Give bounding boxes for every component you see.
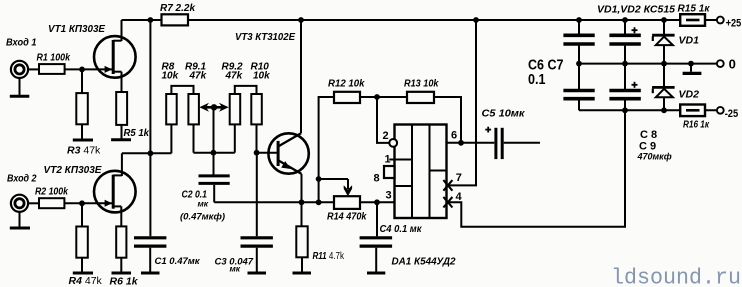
wire C4 bottom leg	[375, 248, 377, 273]
svg-text:R14 470k: R14 470k	[327, 212, 367, 223]
junction on top rail at VT3 collector	[298, 17, 304, 23]
wire VT1 drain riser	[121, 20, 123, 41]
svg-text:10k: 10k	[253, 70, 270, 81]
wire VT3 emitter riser	[301, 174, 303, 202]
svg-text:R2 100k: R2 100k	[35, 186, 69, 198]
svg-text:4: 4	[456, 191, 463, 203]
svg-text:DA1 К544УД2: DA1 К544УД2	[392, 256, 456, 268]
C9 plus sign	[632, 82, 638, 88]
junction wiper link center	[211, 104, 217, 110]
op-amp DA1 box	[389, 125, 446, 219]
junction wiper node / C2	[211, 150, 217, 156]
svg-text:VD1,VD2 КС515: VD1,VD2 КС515	[597, 5, 675, 16]
wire C2 bottom drop	[213, 185, 215, 202]
wire bottom negative rail	[579, 109, 716, 111]
wire R12 to R13	[360, 96, 407, 98]
wire R11 bottom leg	[301, 257, 303, 273]
wire VT1 source down to R5	[121, 72, 123, 92]
ground C4	[367, 272, 385, 275]
capacitor C3	[241, 238, 273, 246]
svg-text:R7 2.2k: R7 2.2k	[160, 2, 196, 14]
wire C4 top drop	[376, 202, 378, 236]
wire C7 stubs	[578, 64, 580, 89]
wire C3 bottom leg	[256, 248, 258, 273]
wire R9.1 leg to wiper node	[194, 152, 214, 154]
wire R11 top leg	[301, 202, 303, 226]
wire R3 bottom leg	[81, 124, 83, 140]
wire R9.1 bottom leg	[193, 124, 195, 152]
svg-text:1: 1	[385, 153, 391, 165]
transistor VT2 (KP303E JFET)	[94, 171, 136, 213]
ground input 1	[10, 95, 30, 98]
junction on negative rail at VD2	[661, 107, 667, 113]
wire C6 stubs	[578, 20, 580, 34]
wire R14 wiper drop	[347, 179, 349, 189]
capacitor C7	[563, 91, 594, 99]
resistor R12	[334, 92, 360, 103]
svg-text:0.1: 0.1	[528, 72, 546, 88]
svg-text:R5 1k: R5 1k	[124, 127, 151, 139]
wire R4 bottom leg	[81, 258, 83, 273]
wire R6 bottom leg	[120, 258, 122, 273]
resistor R5	[116, 92, 127, 125]
ground R5	[111, 138, 131, 141]
ground R11	[293, 272, 312, 275]
transistor VT1 (KP303E JFET)	[94, 36, 136, 78]
wire 0V ground stem	[690, 64, 692, 72]
svg-text:6: 6	[451, 129, 457, 141]
ground R3	[73, 139, 93, 142]
svg-text:R15 1к: R15 1к	[678, 4, 711, 15]
svg-text:мк: мк	[230, 264, 241, 274]
connector input 1	[11, 61, 28, 78]
junction VT3 base / R10 / C3	[254, 150, 260, 156]
wire C5 output	[504, 142, 540, 144]
wire R10 node to VT3 base	[257, 152, 279, 154]
resistor R4	[76, 227, 88, 258]
op-amp pin2 inverting bubble	[389, 139, 397, 147]
svg-text:C1 0.47мк: C1 0.47мк	[155, 256, 201, 267]
wire VT2 source down to R6	[120, 206, 122, 226]
resistor R3	[76, 93, 88, 124]
svg-text:470мкф: 470мкф	[637, 152, 672, 162]
svg-text:мк: мк	[198, 199, 209, 209]
ground 0V rail	[683, 72, 702, 75]
wire C1 bottom leg	[149, 248, 151, 273]
junction on 0V rail at VD1/VD2	[661, 61, 667, 67]
svg-text:R13 10k: R13 10k	[404, 78, 440, 90]
capacitor C4	[360, 238, 393, 246]
resistor R16	[680, 105, 705, 117]
wire C3 drop from base node	[256, 153, 258, 237]
resistor R13	[407, 92, 434, 103]
wire wiper riser down to C2	[213, 107, 215, 175]
wire pin6 output to C5	[447, 142, 495, 144]
wire R10 top stub	[256, 86, 258, 94]
junction VT2 gate / R4	[79, 200, 85, 206]
resistor R11	[296, 226, 307, 257]
junction on top rail at C8	[622, 17, 628, 23]
ground C1	[141, 272, 160, 275]
wire VT2 drain riser	[121, 153, 123, 176]
svg-text:VT2 КП303Е: VT2 КП303Е	[44, 164, 103, 176]
svg-text:VT1 КП303Е: VT1 КП303Е	[48, 23, 106, 35]
wire R8 bottom leg	[170, 124, 172, 153]
wire pin4 to negative rail loop	[447, 110, 626, 227]
wire R5 bottom leg	[121, 125, 123, 140]
resistor R2	[39, 198, 64, 208]
svg-text:C4 0.1 мк: C4 0.1 мк	[380, 224, 423, 235]
terminal 0	[717, 60, 724, 67]
wire top supply rail	[122, 19, 717, 21]
resistor R7	[162, 14, 189, 25]
junction on top rail at R7 left / drain node	[148, 17, 154, 23]
wire R2 to VT2 gate	[64, 202, 95, 204]
wire input1 to R1	[28, 68, 39, 70]
svg-text:3: 3	[386, 190, 392, 202]
wire R14 wiper horizontal	[319, 178, 348, 180]
wire R1 to VT1 gate	[65, 68, 95, 70]
svg-text:47k: 47k	[225, 70, 243, 81]
C5 plus sign	[485, 127, 491, 133]
svg-text:R3 47k: R3 47k	[67, 145, 101, 157]
resistor R10	[251, 94, 261, 124]
wire pin7 to top rail	[447, 20, 477, 185]
wire R3 top leg	[81, 69, 83, 93]
op-amp pin4 x-mark	[443, 197, 452, 208]
svg-text:7: 7	[456, 172, 462, 184]
zener diode VD2	[652, 87, 675, 97]
junction pin6 / R13 riser	[458, 140, 464, 146]
op-amp pin7 x-mark	[443, 180, 452, 191]
C8 plus sign	[632, 27, 638, 33]
resistor R8	[166, 94, 177, 124]
wire input2 ground stem	[19, 212, 21, 228]
svg-text:2: 2	[383, 130, 389, 142]
zener diode VD1	[652, 35, 675, 45]
wire R8-R9.1 top bridge	[170, 85, 194, 87]
junction on top rail at C6	[576, 17, 582, 23]
ground R6	[112, 272, 132, 275]
svg-text:C5 10мк: C5 10мк	[482, 108, 526, 120]
junction on 0V rail at C6/C7	[576, 61, 582, 67]
svg-text:VT3 КТ3102Е: VT3 КТ3102Е	[235, 31, 296, 43]
svg-text:Вход 1: Вход 1	[6, 37, 37, 49]
wire drain node horizontal to R8 leg	[122, 152, 171, 154]
terminal +25	[717, 17, 724, 24]
junction on 0V rail at C8/C9	[622, 61, 628, 67]
svg-text:R16 1к: R16 1к	[683, 120, 710, 131]
connector input 2	[11, 195, 28, 212]
wire R4 top leg	[81, 203, 83, 226]
junction on top rail at pin7 riser	[473, 17, 479, 23]
junction VT1 gate / R3	[79, 67, 85, 73]
junction pin3 / C4	[374, 199, 380, 205]
junction on negative rail at C9/loop riser	[622, 107, 628, 113]
resistor R15	[680, 14, 705, 26]
svg-text:0: 0	[729, 57, 736, 72]
capacitor C2	[199, 176, 230, 184]
ground R4	[73, 272, 93, 275]
resistor R6	[116, 226, 126, 257]
svg-text:R6 1k: R6 1k	[110, 276, 139, 287]
svg-text:Вход 2: Вход 2	[7, 173, 37, 185]
wire C8 stubs	[624, 20, 626, 34]
wire R9.2-R10 top bridge	[234, 85, 258, 87]
ground C3	[248, 272, 267, 275]
wire VD1 stubs	[663, 20, 665, 35]
wire R9.1 top stub	[193, 86, 195, 94]
ground input 2	[10, 227, 30, 230]
wire VT3 collector riser	[300, 20, 302, 133]
resistor R9.1	[188, 94, 199, 124]
trimmer R14 with wiper arrow	[334, 185, 360, 209]
svg-text:8: 8	[374, 173, 380, 185]
junction R12 / R14 wiper	[316, 176, 322, 182]
svg-text:47k: 47k	[189, 70, 207, 81]
svg-text:ldsound.ru: ldsound.ru	[611, 266, 741, 287]
wire input2 to R2	[28, 202, 39, 204]
wire R8 top stub	[170, 86, 172, 94]
wire mid 0V rail	[578, 63, 716, 65]
wire input1 ground stem	[19, 78, 21, 96]
wire VD2 stubs	[663, 64, 665, 88]
wire pin2 drop	[377, 97, 389, 143]
wire drain-node riser x150 down to C1	[149, 20, 151, 236]
wire R9.2 top stub	[234, 86, 236, 94]
svg-text:VD1: VD1	[679, 35, 700, 47]
junction VT3 emitter / R11	[299, 199, 305, 205]
capacitor C1	[134, 238, 166, 246]
capacitor C9 electrolytic	[609, 91, 640, 99]
wire wiper node to R9.2 leg	[213, 152, 235, 154]
svg-text:+25: +25	[726, 18, 742, 30]
junction on 0V rail at ground stem	[688, 61, 694, 67]
junction on top rail at VD1	[661, 17, 667, 23]
wire C9 stubs	[624, 64, 626, 89]
wire R9.2 bottom leg	[234, 124, 236, 152]
junction drain node / R8 / C1	[148, 150, 154, 156]
terminal -25	[717, 107, 724, 114]
wire R10 bottom leg	[256, 124, 258, 152]
svg-text:R4 47k: R4 47k	[69, 275, 103, 287]
svg-text:10k: 10k	[162, 70, 179, 81]
svg-text:R1 100k: R1 100k	[37, 52, 71, 64]
coupling wiper arrows R9.1-R9.2	[199, 103, 228, 112]
wire R12 left bend	[319, 97, 334, 202]
op-amp pins 1-8 offset square	[384, 166, 395, 178]
capacitor C6	[563, 35, 594, 44]
svg-text:-25: -25	[725, 108, 739, 120]
svg-text:VD2: VD2	[679, 89, 700, 101]
svg-text:R11 4.7k: R11 4.7k	[313, 250, 345, 262]
svg-text:R12 10k: R12 10k	[328, 78, 366, 90]
wire pin3 net C2 to op-amp	[214, 201, 394, 203]
resistor R1	[39, 64, 65, 74]
junction R12/R13 / pin2	[374, 94, 380, 100]
svg-text:C 8: C 8	[640, 129, 657, 141]
junction R14 left on pin3 net	[316, 199, 322, 205]
svg-text:(0.47мкф): (0.47мкф)	[180, 212, 225, 223]
wire R13 right bend to pin6	[434, 97, 461, 143]
transistor VT3 (KT3102E NPN)	[268, 133, 308, 174]
resistor R9.2	[230, 94, 241, 124]
capacitor C5 electrolytic	[496, 128, 502, 159]
capacitor C8 electrolytic	[609, 35, 640, 44]
